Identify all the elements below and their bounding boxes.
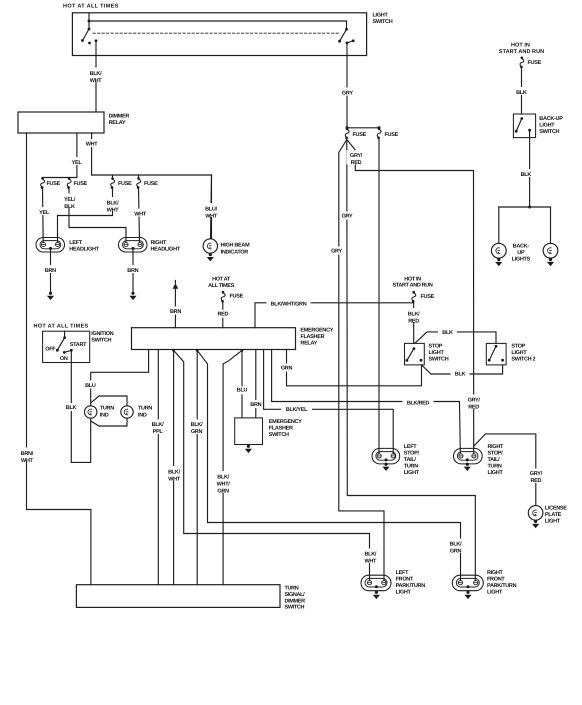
svg-text:BLK/: BLK/ bbox=[408, 312, 420, 318]
svg-text:LIGHT: LIGHT bbox=[511, 350, 527, 356]
svg-text:FUSE: FUSE bbox=[230, 294, 244, 300]
fuse F1 (YEL headlight) bbox=[41, 177, 45, 189]
wire BLK/RED relay to right stop/tail/turn bbox=[272, 350, 461, 454]
ground back-up right bbox=[547, 258, 554, 266]
wire BLK/RED fuse F7 to stop light switch bbox=[413, 301, 415, 343]
ground high beam indicator bbox=[207, 253, 214, 261]
node left lever end bbox=[81, 39, 84, 42]
fuse F3 (BLK/WHT high beam) bbox=[112, 175, 114, 178]
svg-text:PLATE: PLATE bbox=[545, 512, 562, 518]
wire BRN relay to body harness (arrow) bbox=[174, 289, 176, 328]
wire light switch internal bus bbox=[89, 20, 347, 22]
svg-text:TURN: TURN bbox=[488, 464, 502, 470]
svg-text:WHT/: WHT/ bbox=[217, 482, 231, 488]
wire GRN stop switch 1 to emergency flasher relay bbox=[287, 350, 422, 386]
svg-text:LIGHT: LIGHT bbox=[487, 589, 503, 595]
svg-text:LICENSE: LICENSE bbox=[545, 505, 567, 511]
svg-text:STOP/: STOP/ bbox=[488, 451, 504, 457]
light switch box bbox=[72, 13, 366, 56]
lamp RIGHT FRONT PARK/TURN LIGHT bbox=[452, 575, 483, 591]
svg-text:GRY/: GRY/ bbox=[468, 398, 481, 404]
svg-text:PPL: PPL bbox=[153, 429, 164, 435]
fuse F2 (YEL/BLK headlight) bbox=[67, 177, 71, 189]
svg-text:SIGNAL/: SIGNAL/ bbox=[285, 592, 306, 598]
node right pivot bbox=[345, 28, 348, 31]
wire fuse bus left bbox=[43, 177, 77, 179]
lamp LEFT STOP/TAIL/TURN LIGHT bbox=[372, 448, 400, 464]
svg-text:BLK/WHT/GRN: BLK/WHT/GRN bbox=[271, 302, 307, 308]
stop light switch 2 box bbox=[486, 343, 506, 365]
svg-text:HOT AT ALL TIMES: HOT AT ALL TIMES bbox=[34, 324, 89, 330]
wire GRY from right contact bbox=[346, 43, 348, 56]
svg-text:START: START bbox=[70, 342, 87, 348]
svg-text:BLK/: BLK/ bbox=[107, 201, 119, 207]
wire YEL/BLK fuse2 to right headlight bbox=[69, 188, 126, 242]
svg-text:LIGHT: LIGHT bbox=[404, 470, 420, 476]
lamp RIGHT HEADLIGHT bbox=[119, 238, 148, 253]
ground right stop/tail bbox=[464, 463, 471, 471]
svg-text:BRN: BRN bbox=[250, 402, 261, 408]
svg-text:IGNITION: IGNITION bbox=[91, 331, 113, 337]
svg-text:UP: UP bbox=[517, 250, 525, 256]
wire junction to fuse F6 bbox=[347, 127, 379, 129]
svg-text:BLK: BLK bbox=[64, 204, 75, 210]
ground right front park/turn bbox=[464, 591, 471, 599]
turn signal / dimmer switch box bbox=[76, 585, 280, 608]
svg-text:WHT: WHT bbox=[168, 477, 181, 483]
svg-text:BACK-: BACK- bbox=[513, 244, 530, 250]
svg-text:WHT: WHT bbox=[107, 208, 120, 214]
svg-text:BRN: BRN bbox=[127, 268, 138, 274]
wire GRY fuse6 to left stop/tail light bbox=[378, 138, 380, 453]
svg-text:RED: RED bbox=[217, 311, 228, 317]
wire BLK/WHT relay branch to left front park/turn bbox=[174, 350, 370, 580]
ground left headlight bbox=[47, 292, 54, 300]
svg-text:BLK: BLK bbox=[516, 90, 527, 96]
svg-text:STOP: STOP bbox=[511, 343, 525, 349]
svg-text:FLASHER: FLASHER bbox=[269, 425, 293, 431]
fuse F7 (stop lights) bbox=[412, 291, 416, 303]
lamp LEFT HEADLIGHT bbox=[36, 238, 65, 253]
svg-text:TURN: TURN bbox=[404, 464, 418, 470]
svg-text:LEFT: LEFT bbox=[404, 444, 417, 450]
svg-text:SWITCH: SWITCH bbox=[373, 19, 393, 25]
ground license plate light bbox=[532, 520, 539, 528]
svg-text:EMERGENCY: EMERGENCY bbox=[300, 327, 333, 333]
svg-text:BLU/: BLU/ bbox=[205, 207, 217, 213]
svg-text:FUSE: FUSE bbox=[353, 132, 367, 138]
svg-text:FRONT: FRONT bbox=[396, 577, 414, 583]
wire GRY/RED branch to license plate light bbox=[474, 434, 536, 506]
fuse F5 (tail circuit) bbox=[345, 127, 349, 139]
svg-text:GRN: GRN bbox=[281, 365, 293, 371]
svg-text:WHT: WHT bbox=[86, 142, 99, 148]
wire GRY fuse5 branch left to left front park/turn bbox=[339, 140, 384, 581]
svg-text:GRY: GRY bbox=[331, 249, 342, 255]
wire RED fuse F8 to relay bbox=[222, 301, 224, 327]
fuse F9 (back-up lights) bbox=[520, 57, 524, 69]
svg-text:RIGHT: RIGHT bbox=[151, 240, 168, 246]
svg-text:STOP/: STOP/ bbox=[404, 451, 420, 457]
lamp TURN IND left bbox=[85, 406, 97, 418]
wire GRY light switch to fuse junction bbox=[346, 56, 348, 128]
wire BLK/WHT/GRN relay to fuse F7 bbox=[255, 303, 414, 328]
wire BLU continues below turn ind bbox=[90, 418, 92, 462]
junction light switch bus bbox=[88, 20, 91, 23]
svg-text:BLK/: BLK/ bbox=[450, 542, 462, 548]
wire BLU relay to ignition branch and turn indicators bbox=[91, 350, 149, 406]
wire BLK/WHT fuse3 to left headlight high beam bbox=[58, 188, 113, 242]
svg-text:TAIL/: TAIL/ bbox=[404, 457, 417, 463]
svg-text:BACK-UP: BACK-UP bbox=[539, 116, 563, 122]
svg-text:SWITCH: SWITCH bbox=[285, 605, 305, 611]
svg-text:LIGHTS: LIGHTS bbox=[512, 257, 531, 263]
svg-text:WHT: WHT bbox=[90, 78, 103, 84]
wire GRY fuse5 branch straight to right front park/turn bbox=[347, 138, 476, 580]
svg-text:RELAY: RELAY bbox=[109, 120, 126, 126]
wire YEL dimmer to fuse bus bbox=[76, 133, 78, 178]
svg-text:RED: RED bbox=[408, 319, 419, 325]
svg-text:YEL/: YEL/ bbox=[64, 197, 76, 203]
svg-text:HEADLIGHT: HEADLIGHT bbox=[151, 246, 181, 252]
fuse F4 (WHT) bbox=[138, 175, 140, 178]
svg-text:RED: RED bbox=[530, 478, 541, 484]
svg-text:BLK/: BLK/ bbox=[191, 422, 203, 428]
svg-text:SWITCH: SWITCH bbox=[539, 129, 559, 135]
svg-text:YEL: YEL bbox=[72, 160, 83, 166]
svg-text:IND: IND bbox=[100, 412, 109, 418]
svg-text:BLK/RED: BLK/RED bbox=[407, 400, 430, 406]
wire BLK/YEL relay to left stop/tail/turn bbox=[264, 350, 394, 454]
wire WHT fuse4 to right headlight bbox=[139, 188, 140, 242]
svg-text:BLK/: BLK/ bbox=[364, 552, 376, 558]
wire turn ind loop top bbox=[91, 396, 127, 406]
svg-text:SWITCH 2: SWITCH 2 bbox=[511, 356, 535, 362]
lamp BACK-UP LIGHT left bbox=[491, 243, 506, 258]
svg-text:GRY: GRY bbox=[342, 214, 353, 220]
svg-text:WHT: WHT bbox=[205, 214, 218, 220]
svg-text:LIGHT: LIGHT bbox=[373, 13, 389, 19]
svg-text:FUSE: FUSE bbox=[74, 181, 88, 187]
svg-text:PARK/TURN: PARK/TURN bbox=[396, 583, 426, 589]
svg-text:ON: ON bbox=[60, 356, 68, 362]
svg-text:SWITCH: SWITCH bbox=[269, 432, 289, 438]
svg-text:EMERGENCY: EMERGENCY bbox=[269, 419, 302, 425]
svg-text:YEL: YEL bbox=[39, 210, 50, 216]
node relay pin (BLK/GRN pair) bbox=[196, 349, 199, 352]
node left contact a bbox=[88, 42, 91, 45]
lamp LICENSE PLATE LIGHT bbox=[528, 506, 543, 521]
wire BLK fuse to back-up light switch bbox=[521, 67, 523, 114]
svg-text:RIGHT: RIGHT bbox=[488, 444, 505, 450]
svg-text:INDICATOR: INDICATOR bbox=[221, 250, 249, 256]
svg-text:FRONT: FRONT bbox=[487, 577, 505, 583]
svg-text:BLK: BLK bbox=[521, 172, 532, 178]
dimmer relay box bbox=[18, 112, 104, 133]
svg-text:BLK/: BLK/ bbox=[217, 475, 229, 481]
svg-text:PARK/TURN: PARK/TURN bbox=[487, 583, 517, 589]
wire GRY/RED fuse5 branch to right stop/tail and license bbox=[347, 140, 474, 454]
svg-text:STOP: STOP bbox=[429, 343, 443, 349]
svg-text:BLK: BLK bbox=[66, 405, 77, 411]
wire to left switch pivot bbox=[88, 21, 90, 29]
svg-text:RIGHT: RIGHT bbox=[487, 570, 504, 576]
svg-text:RED: RED bbox=[351, 160, 362, 166]
fuse F6 (left tail GRY) bbox=[377, 127, 381, 139]
svg-text:HEADLIGHT: HEADLIGHT bbox=[69, 246, 99, 252]
node relay pin (BLU / BLK-WHT-GRN) bbox=[241, 349, 244, 352]
svg-text:BLU: BLU bbox=[237, 387, 248, 393]
svg-text:DIMMER: DIMMER bbox=[285, 598, 306, 604]
svg-text:WHT: WHT bbox=[21, 458, 34, 464]
svg-text:TAIL/: TAIL/ bbox=[488, 457, 501, 463]
dashed linkage light switch bbox=[93, 32, 340, 34]
svg-text:START AND RUN: START AND RUN bbox=[499, 49, 544, 55]
wire right contact link bbox=[347, 41, 353, 43]
svg-text:DIMMER: DIMMER bbox=[109, 114, 130, 120]
wire BLK/WHT relay to turn signal switch bbox=[173, 350, 175, 585]
svg-text:SWITCH: SWITCH bbox=[91, 338, 111, 344]
svg-text:FLASHER: FLASHER bbox=[300, 334, 324, 340]
wire BLK stop switch contacts (lower) bbox=[422, 365, 503, 374]
wire BLU/WHT to high beam indicator bbox=[211, 175, 212, 239]
wire BLK back-up switch to lamps bbox=[529, 130, 531, 207]
wire from left contact down bbox=[95, 41, 97, 56]
node left contact b bbox=[95, 39, 98, 42]
svg-text:GRN: GRN bbox=[450, 549, 462, 555]
svg-text:BRN: BRN bbox=[170, 309, 181, 315]
ground left front park/turn bbox=[373, 591, 380, 599]
lamp HIGH BEAM INDICATOR bbox=[203, 239, 217, 253]
ground emergency flasher switch bbox=[245, 445, 252, 453]
emergency flasher relay box bbox=[132, 328, 296, 350]
svg-text:LIGHT: LIGHT bbox=[488, 470, 504, 476]
ground right headlight bbox=[129, 292, 136, 300]
wire BLU relay to emergency flasher switch bbox=[241, 350, 243, 418]
switch lever left bbox=[83, 29, 90, 41]
svg-text:LIGHT: LIGHT bbox=[396, 589, 412, 595]
wire BLK stop switch 1 to stop switch 2 (upper) bbox=[415, 332, 496, 344]
svg-text:GRY: GRY bbox=[342, 91, 353, 97]
fuse F8 (flasher) bbox=[221, 291, 225, 303]
svg-text:LIGHT: LIGHT bbox=[539, 123, 555, 129]
node right contact b bbox=[352, 39, 355, 42]
svg-text:FUSE: FUSE bbox=[118, 181, 132, 187]
svg-text:HOT IN: HOT IN bbox=[511, 43, 530, 49]
junction GRY fuse node bbox=[346, 126, 349, 129]
wire BRN left headlight to ground bbox=[50, 248, 52, 292]
svg-text:GRY/: GRY/ bbox=[350, 153, 363, 159]
svg-text:LIGHT: LIGHT bbox=[429, 350, 445, 356]
svg-text:FUSE: FUSE bbox=[385, 132, 399, 138]
svg-text:BLK: BLK bbox=[442, 330, 453, 336]
svg-text:HOT AT: HOT AT bbox=[212, 277, 231, 283]
wire BRN/WHT dimmer relay to turn signal switch bbox=[27, 133, 91, 585]
svg-text:WHT: WHT bbox=[364, 559, 377, 565]
wire BLK/PPL relay to turn signal switch bbox=[157, 350, 159, 585]
svg-text:GRN: GRN bbox=[191, 429, 203, 435]
back-up light switch box bbox=[513, 114, 535, 138]
lamp TURN IND right bbox=[121, 406, 133, 418]
switch lever stop light switch bbox=[407, 349, 414, 361]
wire BRN relay to emergency flasher switch bbox=[255, 350, 257, 418]
svg-text:LEFT: LEFT bbox=[69, 240, 82, 246]
wire BLK/GRN relay branch to right front park/turn bbox=[197, 350, 460, 580]
lamp RIGHT STOP/TAIL/TURN LIGHT bbox=[454, 448, 483, 464]
wire BLK/WHT light switch to dimmer relay bbox=[95, 56, 97, 113]
node left pivot bbox=[88, 28, 91, 31]
svg-text:BLK/: BLK/ bbox=[168, 470, 180, 476]
wire BRN right headlight to ground bbox=[132, 248, 134, 292]
svg-text:SWITCH: SWITCH bbox=[429, 356, 449, 362]
svg-text:HIGH BEAM: HIGH BEAM bbox=[221, 243, 250, 249]
switch lever stop light switch 2 bbox=[489, 346, 496, 360]
svg-text:IND: IND bbox=[138, 412, 147, 418]
switch lever ignition bbox=[57, 338, 64, 351]
svg-text:TURN: TURN bbox=[100, 406, 114, 412]
svg-text:TURN: TURN bbox=[138, 406, 152, 412]
svg-text:ALL TIMES: ALL TIMES bbox=[208, 283, 234, 289]
svg-text:LIGHT: LIGHT bbox=[545, 519, 561, 525]
wire BLK/WHT/GRN relay to turn signal switch bbox=[223, 350, 242, 584]
svg-text:FUSE: FUSE bbox=[47, 181, 61, 187]
svg-text:OFF: OFF bbox=[45, 347, 56, 353]
svg-text:WHT: WHT bbox=[134, 212, 147, 218]
node right contact a bbox=[346, 42, 349, 45]
lamp LEFT FRONT PARK/TURN LIGHT bbox=[361, 575, 391, 591]
stop light switch box bbox=[405, 343, 425, 365]
wire to right switch pivot bbox=[346, 21, 348, 29]
svg-text:HOT AT ALL TIMES: HOT AT ALL TIMES bbox=[63, 4, 119, 10]
wire WHT dimmer to fuse bus bbox=[91, 133, 93, 175]
svg-text:FUSE: FUSE bbox=[421, 294, 435, 300]
svg-text:GRY/: GRY/ bbox=[530, 471, 543, 477]
svg-text:RED: RED bbox=[468, 405, 479, 411]
svg-text:BLK/: BLK/ bbox=[152, 422, 164, 428]
wire turn ind loop bottom bbox=[91, 418, 127, 426]
junction back-up lamp split bbox=[528, 206, 531, 209]
ignition switch box bbox=[43, 331, 90, 362]
wire light switch feed bbox=[88, 13, 90, 21]
svg-text:RELAY: RELAY bbox=[300, 340, 317, 346]
wire BLK ignition to turn signal circuit bbox=[71, 350, 90, 462]
svg-text:START AND RUN: START AND RUN bbox=[392, 283, 432, 289]
svg-text:GRN: GRN bbox=[217, 489, 229, 495]
switch lever right bbox=[340, 29, 347, 41]
svg-text:LEFT: LEFT bbox=[396, 570, 409, 576]
emergency flasher switch box bbox=[235, 418, 263, 445]
svg-text:TURN: TURN bbox=[285, 586, 299, 592]
ground back-up left bbox=[495, 258, 502, 266]
svg-text:BLK/: BLK/ bbox=[90, 71, 102, 77]
svg-text:BRN: BRN bbox=[45, 268, 56, 274]
wire relay to turn signal switch (center) bbox=[196, 350, 198, 585]
wire fuse bus right bbox=[92, 175, 212, 239]
svg-text:FUSE: FUSE bbox=[144, 181, 158, 187]
svg-text:BRN/: BRN/ bbox=[21, 451, 34, 457]
ground left stop/tail bbox=[382, 463, 389, 471]
svg-text:BLK: BLK bbox=[455, 372, 466, 378]
node right lever end bbox=[338, 40, 341, 43]
svg-text:BLK/YEL: BLK/YEL bbox=[286, 407, 308, 413]
svg-text:FUSE: FUSE bbox=[528, 60, 542, 66]
node relay pin (BLK/WHT pair) bbox=[172, 349, 175, 352]
lamp BACK-UP LIGHT right bbox=[543, 243, 558, 258]
wire YEL fuse1 to left headlight bbox=[42, 188, 45, 242]
switch lever back-up switch bbox=[516, 119, 522, 132]
svg-text:BLU: BLU bbox=[85, 383, 96, 389]
